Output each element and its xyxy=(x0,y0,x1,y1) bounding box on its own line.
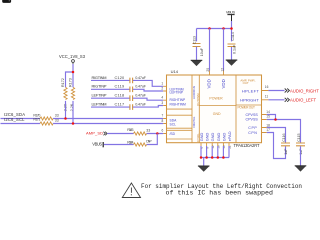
svg-text:21: 21 xyxy=(228,145,232,149)
svg-text:HPRIGHT: HPRIGHT xyxy=(240,98,259,103)
power bar VBUS (left) xyxy=(92,141,103,147)
wire SCL to chip xyxy=(53,123,163,125)
chip right pin stubs xyxy=(262,85,271,132)
svg-text:11: 11 xyxy=(265,95,269,99)
svg-text:C115: C115 xyxy=(297,133,301,141)
chip section rotated labels xyxy=(192,79,255,142)
svg-text:POWER: POWER xyxy=(209,97,223,101)
svg-text:VCC_1V8_S3: VCC_1V8_S3 xyxy=(59,54,86,59)
svg-text:8: 8 xyxy=(162,119,164,123)
svg-text:33: 33 xyxy=(55,118,59,122)
svg-text:12: 12 xyxy=(221,68,225,72)
capacitor C116 xyxy=(281,133,290,154)
svg-text:C120: C120 xyxy=(115,75,126,80)
port AMP_SD xyxy=(86,130,107,135)
svg-text:VBUS: VBUS xyxy=(92,141,102,146)
wire VCC down to junction xyxy=(72,64,74,72)
svg-text:RIGHTINM: RIGHTINM xyxy=(170,102,187,106)
svg-text:of this IC has been swapped: of this IC has been swapped xyxy=(166,190,274,197)
wire SDA to chip xyxy=(53,118,163,120)
svg-text:CPVSS: CPVSS xyxy=(246,113,259,117)
svg-text:CPN: CPN xyxy=(248,131,257,135)
chip left pin names xyxy=(170,87,187,136)
svg-text:33: 33 xyxy=(146,129,150,133)
svg-text:CPVSS: CPVSS xyxy=(246,118,259,122)
resistor R183 xyxy=(127,128,150,135)
svg-text:2.2K: 2.2K xyxy=(70,103,74,111)
wire CPVSS pin14 xyxy=(267,115,276,120)
resistor R170 xyxy=(33,113,58,120)
chip bottom pin stubs xyxy=(200,143,232,149)
svg-text:GND: GND xyxy=(199,132,204,141)
wire top power bus xyxy=(197,29,232,42)
junction dots GND bus xyxy=(200,156,225,159)
svg-text:AMP_SD: AMP_SD xyxy=(86,130,103,135)
ground below C115 xyxy=(295,166,307,172)
svg-text:RIGTINP: RIGTINP xyxy=(92,84,107,89)
svg-text:SCL: SCL xyxy=(170,123,177,127)
input row RIGTINM / C120 xyxy=(91,75,163,87)
wire VBUS drop xyxy=(231,21,233,29)
junction dot CPVSS xyxy=(274,118,277,121)
junction dot /SD xyxy=(156,132,159,135)
wire R173 to SCL xyxy=(72,101,74,124)
svg-text:0.1uF: 0.1uF xyxy=(232,44,236,54)
capacitor C113 xyxy=(192,36,203,56)
wire I2C6_SCL xyxy=(1,123,41,125)
wire VBUS to R184 xyxy=(104,144,134,146)
wire junction to R172 branch xyxy=(66,72,74,87)
chip right pin names xyxy=(240,88,259,134)
wire R184 up to /SD junction xyxy=(147,134,158,145)
svg-text:R183: R183 xyxy=(127,128,133,132)
svg-text:DNP: DNP xyxy=(146,140,152,144)
corner UI black box xyxy=(2,0,11,3)
svg-text:20: 20 xyxy=(206,68,210,72)
svg-text:1uF: 1uF xyxy=(284,148,288,155)
svg-text:C114: C114 xyxy=(231,32,235,40)
svg-text:C113: C113 xyxy=(192,36,196,44)
port AUDIO_LEFT xyxy=(285,98,317,103)
svg-text:I2C6_SCL: I2C6_SCL xyxy=(4,117,25,122)
svg-text:R172: R172 xyxy=(61,78,65,87)
svg-text:GND: GND xyxy=(210,132,215,141)
resistor R184 xyxy=(127,140,152,147)
wire HPRIGHT out xyxy=(268,99,284,101)
svg-text:R173: R173 xyxy=(69,78,73,87)
capacitor C115 xyxy=(296,133,305,154)
svg-text:GND: GND xyxy=(216,132,221,141)
warning triangle xyxy=(122,183,140,198)
svg-text:LEFTINM: LEFTINM xyxy=(92,102,107,107)
svg-text:TPA6130A2RT: TPA6130A2RT xyxy=(234,143,260,148)
wire C113 to gnd xyxy=(196,47,198,61)
wire HPLEFT out xyxy=(268,90,284,92)
svg-text:C118: C118 xyxy=(115,93,125,98)
input row RIGTINP / C119 xyxy=(91,84,163,92)
input row LEFTINM / C117 xyxy=(91,102,163,110)
ground below chip xyxy=(198,166,210,172)
svg-text:POWER OUT: POWER OUT xyxy=(238,105,256,109)
ground below C113 xyxy=(191,60,203,66)
svg-text:VBUS: VBUS xyxy=(226,10,236,15)
junction dot SDA/R172 xyxy=(64,117,67,120)
svg-text:10: 10 xyxy=(222,145,226,149)
svg-text:HPLEFT: HPLEFT xyxy=(242,88,259,93)
junction dot bus/VDD1 xyxy=(208,27,211,30)
chip top pin stubs xyxy=(206,68,225,75)
wire CPVSS pin15 to C115 xyxy=(267,120,301,143)
svg-text:2: 2 xyxy=(161,87,163,91)
wire R183 to /SD pin xyxy=(147,133,164,135)
chip bottom pin names xyxy=(199,131,232,141)
svg-text:AUDIO_LEFT: AUDIO_LEFT xyxy=(290,98,316,103)
input row LEFTINP / C118 xyxy=(91,93,163,101)
svg-text:GND: GND xyxy=(221,132,226,141)
power port VCC_1V8_S3 xyxy=(59,54,86,64)
svg-text:10uF: 10uF xyxy=(200,47,204,56)
wire R172 to SDA xyxy=(65,101,67,119)
wire C114 to gnd xyxy=(231,47,233,60)
svg-text:12: 12 xyxy=(211,145,215,149)
svg-text:0.47uF: 0.47uF xyxy=(135,85,146,89)
svg-text:OUT: OUT xyxy=(243,81,249,85)
svg-text:0.47uF: 0.47uF xyxy=(135,76,146,80)
resistor R172 xyxy=(61,78,68,111)
op-amp U14 chip body xyxy=(167,69,262,148)
svg-text:LEFTINP: LEFTINP xyxy=(170,90,184,94)
svg-text:AUDIO_RIGHT: AUDIO_RIGHT xyxy=(290,89,319,94)
resistor R171 xyxy=(33,118,58,125)
svg-text:16: 16 xyxy=(265,85,269,89)
chip left pin stubs xyxy=(161,82,167,134)
junction dot bus/VBUS xyxy=(230,27,233,30)
junction dot VCC xyxy=(72,71,75,74)
svg-text:C116: C116 xyxy=(282,133,286,141)
wire I2C6_SDA xyxy=(1,118,41,120)
capacitor C114 xyxy=(228,32,237,54)
junction dot bus/VDD2 xyxy=(222,27,225,30)
wire VDD2 drop xyxy=(223,29,225,71)
wire GND pins to bus xyxy=(201,146,229,158)
svg-text:GND: GND xyxy=(205,132,210,141)
svg-text:R184: R184 xyxy=(127,141,133,145)
svg-text:7: 7 xyxy=(162,114,164,118)
svg-text:DIGITAL: DIGITAL xyxy=(192,116,196,127)
svg-text:0.47uF: 0.47uF xyxy=(135,94,146,98)
svg-text:0.47uF: 0.47uF xyxy=(135,103,146,107)
chip top pin names VDD xyxy=(207,79,227,88)
wire C115 to ground xyxy=(300,146,302,166)
svg-text:1: 1 xyxy=(161,82,163,86)
wire bus to ground xyxy=(203,158,205,166)
svg-text:VDD: VDD xyxy=(221,79,226,88)
ground below C114 xyxy=(226,60,238,66)
svg-text:GND: GND xyxy=(213,112,221,116)
svg-text:33: 33 xyxy=(55,114,59,118)
svg-text:19: 19 xyxy=(217,145,221,149)
svg-text:OUTPNM: OUTPNM xyxy=(196,93,200,106)
svg-text:3: 3 xyxy=(161,101,163,105)
svg-text:4: 4 xyxy=(161,96,163,100)
junction dot SCL/R173 xyxy=(72,122,75,125)
svg-text:LEFTINP: LEFTINP xyxy=(92,93,107,98)
svg-text:C119: C119 xyxy=(115,84,125,89)
wire VDD1 drop xyxy=(209,29,211,71)
port AUDIO_RIGHT xyxy=(285,89,320,94)
svg-text:ePAD: ePAD xyxy=(227,131,232,141)
svg-text:VDD: VDD xyxy=(207,79,212,88)
power port VBUS (top) xyxy=(226,10,236,21)
svg-text:/SD: /SD xyxy=(170,132,176,136)
svg-text:U14: U14 xyxy=(171,69,179,74)
wire AMP_SD xyxy=(107,133,133,135)
wire CPP pin18 to C116 xyxy=(267,128,286,143)
svg-text:RIGTINM: RIGTINM xyxy=(92,75,107,80)
svg-text:C117: C117 xyxy=(115,102,125,107)
svg-text:17: 17 xyxy=(266,128,270,132)
svg-text:6: 6 xyxy=(162,129,164,133)
svg-text:CPP: CPP xyxy=(248,126,257,130)
svg-text:R171: R171 xyxy=(33,118,40,122)
resistor R173 xyxy=(69,78,75,111)
wire CPN pin17 to C116 bottom xyxy=(267,133,286,159)
